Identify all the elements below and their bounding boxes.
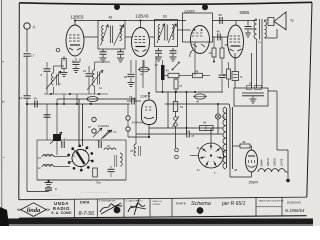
svg-text:Schema: Schema (191, 201, 211, 207)
resistor R56 50B5 cathode box (232, 72, 239, 81)
wire V1 top to bus (74, 21, 76, 26)
output transformer T3 primary coil (254, 19, 257, 39)
band switch S16 arrows (93, 128, 102, 137)
chassis enclosure box (37, 140, 126, 180)
wire V2 top to bus (140, 21, 142, 28)
capacitor C46 at 50B5 plate (247, 21, 249, 26)
tube V4 50B5 envelope (228, 25, 244, 58)
tube V1 12BE6 envelope (66, 25, 84, 56)
svg-text:17: 17 (31, 54, 35, 58)
wire antenna lead down (26, 29, 28, 52)
resistor R52 vertical (227, 69, 231, 79)
svg-text:12AT6: 12AT6 (280, 158, 284, 166)
wire V6 bottom bus (128, 136, 150, 138)
capacitor C7 RF trimmer (44, 68, 51, 70)
wire socket left stub (190, 155, 199, 157)
svg-text:12AT6: 12AT6 (140, 95, 150, 99)
svg-text:Ty: Ty (290, 19, 294, 23)
scan edge faint line left (1, 0, 3, 208)
capacitor C46 coupling (217, 34, 219, 41)
oval capacitor C44b under V2 (143, 60, 145, 67)
svg-text:S. A. COMO: S. A. COMO (51, 211, 72, 215)
svg-text:.... ......... ........ ......: .... ......... ........ .......... ..... (37, 195, 62, 197)
tube socket Z2 seven pin (199, 143, 224, 168)
ground inside filter box (252, 96, 254, 99)
tube V2 12BA6 envelope (132, 28, 150, 57)
antenna terminal A (24, 23, 30, 29)
small caps atop filter box (247, 86, 252, 90)
capacitor C47 tap (186, 131, 188, 138)
svg-text:35m: 35m (96, 181, 101, 185)
heater chain loops (258, 169, 285, 172)
svg-text:48: 48 (195, 70, 199, 74)
capacitor C30 under V1 (75, 58, 77, 61)
wire C47 riser from AVC bus (186, 92, 188, 134)
scanner black band bottom (0, 219, 313, 225)
wire T2 to V3 (178, 29, 191, 31)
ground under T2 right (170, 56, 177, 58)
svg-text:16: 16 (88, 125, 92, 129)
border frame right edge (307, 2, 312, 197)
svg-text:47: 47 (129, 95, 133, 99)
capacitor C58 coupling (219, 17, 221, 24)
svg-text:DATA E VISTO MODIFICHE: DATA E VISTO MODIFICHE (259, 200, 285, 203)
wire coils to gang (54, 156, 68, 158)
socket Z1 pin dots (91, 160, 94, 163)
svg-text:47: 47 (191, 134, 195, 138)
svg-text:45: 45 (225, 43, 229, 47)
capacitor under T1 right to ground (120, 49, 122, 52)
capacitor C4 in box (108, 168, 115, 170)
capacitor under T1 left to ground (102, 49, 104, 52)
tube V3 12AT6 envelope (191, 26, 210, 54)
socket Z1 rotor wedge (77, 152, 85, 165)
trimmer arrow 7m (103, 130, 112, 138)
wire AVC bus (156, 91, 223, 93)
node heater end terminal (286, 179, 290, 183)
wire V6 top lead (148, 93, 150, 100)
svg-text:P.GRAM: P.GRAM (98, 124, 109, 128)
svg-text:12BA6: 12BA6 (266, 158, 270, 167)
resistor R45 load (220, 48, 224, 58)
svg-text:68: 68 (124, 75, 128, 79)
registration punch dot bottom-middle (197, 207, 204, 214)
wire right riser from V6 bus (167, 92, 169, 128)
switch S1 contacts (174, 117, 178, 121)
svg-text:44: 44 (140, 73, 144, 77)
svg-text:41: 41 (97, 139, 101, 143)
resistor R47 vertical below R43 (175, 78, 177, 79)
oscillator padder coil L40 (104, 148, 116, 150)
svg-text:12BE6: 12BE6 (273, 158, 277, 167)
left edge specks (2, 61, 4, 62)
title block top line (19, 197, 307, 200)
phono jack pair left lower (92, 129, 96, 133)
wire top bus (75, 20, 186, 22)
wire bottom bus through R54 (149, 127, 223, 129)
wire V3 plate to 50B5 grid (213, 36, 229, 38)
wire box bottom bus (37, 179, 126, 181)
pin circle V1 (56, 48, 60, 52)
wire T1 to V2 grid (125, 36, 132, 38)
aerial coil L13 lower (42, 165, 54, 167)
capacitor C10 on antenna lead (24, 95, 31, 97)
wire coil bottoms to bus (44, 93, 108, 95)
pilot lamp 75 (215, 114, 220, 119)
svg-text:A: A (33, 25, 36, 30)
ground under C46 (245, 32, 251, 34)
svg-text:N.1956/64: N.1956/64 (285, 208, 305, 213)
svg-text:linda: linda (27, 207, 41, 214)
wire mid vertical from T2 (155, 57, 157, 92)
registration punch dot top-left (114, 4, 120, 10)
resistor R28 in box (93, 168, 98, 177)
svg-text:IL CAPO UFFICIO: IL CAPO UFFICIO (126, 200, 143, 203)
capacitor C43 on AVC spur (27, 103, 130, 105)
svg-text:..... ........... ............: ..... ........... ............ .........… (80, 191, 108, 194)
svg-text:46: 46 (217, 30, 221, 34)
svg-text:42: 42 (155, 63, 159, 67)
svg-text:per R 65/1: per R 65/1 (221, 201, 246, 207)
output transformer T3 secondary coil (265, 22, 267, 38)
border frame top edge (19, 2, 312, 4)
resistor R54 (200, 126, 214, 131)
capacitor C53 below R45 (219, 74, 226, 76)
wire heater chain to terminal (277, 149, 288, 151)
svg-text:35W4: 35W4 (260, 159, 264, 167)
capacitor C17 on antenna lead (24, 53, 31, 55)
phono jack lower (126, 127, 130, 131)
shield box around V3 (183, 13, 213, 42)
svg-text:7m: 7m (113, 130, 117, 134)
coil L33 small choke (134, 144, 136, 156)
resistor R49 rectifier feed (240, 144, 250, 148)
ground under T1 right (117, 57, 124, 59)
wire socket to R54 bus (210, 128, 212, 143)
wire pilot lamp drop (217, 119, 219, 134)
svg-text:45: 45 (196, 100, 200, 104)
wire 35W4 filament return (251, 172, 253, 177)
wire V2 plate to T2 (149, 36, 154, 38)
title block logo diamond linda (21, 203, 47, 217)
wire antenna bottom to ground bus (27, 191, 49, 193)
svg-text:10: 10 (83, 69, 87, 73)
svg-text:4m: 4m (223, 152, 226, 154)
svg-text:11: 11 (99, 86, 102, 90)
svg-text:54: 54 (203, 121, 207, 125)
loudspeaker horn (274, 12, 286, 30)
wire shield box to output stage (213, 20, 257, 22)
wire jack drop (127, 104, 129, 116)
capacitor C41 top of box (61, 141, 63, 148)
svg-text:12BE6: 12BE6 (70, 14, 84, 19)
capacitor C14 on AVC drop (44, 114, 51, 116)
svg-text:8-7-56: 8-7-56 (79, 211, 95, 217)
resistor R43 (168, 73, 179, 78)
ground under C68 (128, 82, 135, 84)
ground under T1 left (100, 57, 107, 59)
svg-text:46: 46 (109, 16, 113, 20)
tube V5 35W4 envelope (246, 150, 258, 172)
wire V1 pins down (63, 58, 65, 61)
signature 1 squiggle (100, 204, 122, 212)
IF transformer T1 can (98, 21, 125, 50)
scanner black blob bottom-left corner (0, 207, 9, 226)
svg-text:16: 16 (209, 51, 213, 55)
wire B+ horizontal to ballast (165, 103, 229, 105)
capacitor under T2 right to ground (172, 48, 174, 51)
registration punch dot top-right (202, 4, 208, 10)
output transformer T3 core (259, 19, 261, 40)
filter network box (234, 88, 268, 106)
electrolytic capacitor C8 to ground (48, 180, 50, 182)
svg-text:PARTE: PARTE (176, 201, 186, 205)
svg-text:36: 36 (234, 168, 238, 172)
node junction antenna to AVC line (26, 103, 28, 105)
svg-text:P.GRAM: P.GRAM (132, 121, 143, 125)
svg-text:52: 52 (223, 73, 227, 77)
signature 2 squiggle (128, 203, 145, 212)
svg-text:IL DISEGNATORE: IL DISEGNATORE (99, 200, 116, 203)
capacitor under T2 left to ground (158, 48, 160, 51)
electrolytic capacitor C55 in box (242, 92, 264, 94)
svg-text:49: 49 (242, 140, 246, 144)
resistor R29 under V1 (62, 59, 67, 69)
volume potentiometer (53, 134, 61, 141)
wire secondary down lead (261, 40, 263, 89)
svg-text:51: 51 (180, 105, 184, 109)
loudspeaker driver (268, 18, 274, 26)
oval capacitor 45 (195, 94, 206, 99)
phono jack pair left upper (92, 117, 96, 121)
svg-text:63: 63 (163, 15, 167, 19)
wire mid verticals V2 (135, 60, 137, 144)
wire 50B5 screen lead (251, 53, 253, 88)
tube V6 envelope (142, 100, 157, 125)
wire 50B5 cathode leads (234, 53, 236, 72)
resistor R51 (173, 102, 178, 112)
capacitor C47b at V6 grid (131, 98, 133, 105)
svg-text:DISEGNO: DISEGNO (287, 201, 302, 205)
wire V3 pin curl (190, 50, 193, 57)
mains plug contacts (175, 148, 179, 152)
wire primary down lead (256, 39, 258, 88)
ballast coil L36 (223, 107, 226, 169)
capacitor C68 under V2 (130, 60, 132, 73)
svg-text:Tr: Tr (258, 41, 261, 45)
svg-text:43: 43 (166, 69, 170, 73)
svg-text:35W4: 35W4 (249, 181, 258, 185)
title block column dividers (74, 199, 76, 218)
ground under C30 (73, 68, 80, 70)
ground under R29 (61, 72, 68, 74)
AVC line with oval filter 44 (57, 98, 136, 100)
svg-text:CONTR.: CONTR. (152, 204, 161, 206)
resistor R16 grid leak (212, 48, 216, 57)
registration punch dot bottom-left on signature (114, 207, 121, 214)
ground under T2 left (155, 56, 162, 58)
svg-text:12BA6: 12BA6 (135, 14, 149, 19)
IF transformer T2 can (155, 20, 178, 47)
wire 50B5 grid drop (235, 21, 237, 26)
vertical coil L12 right of gang (120, 153, 122, 166)
svg-text:OMOLOG.: OMOLOG. (152, 201, 163, 203)
capacitor C41b (98, 141, 100, 148)
wire transformer top leads (256, 19, 258, 21)
svg-text:47: 47 (179, 84, 183, 88)
wire V1 plate to T1 (84, 36, 98, 38)
tube socket Z1 circle (72, 150, 89, 167)
svg-text:DATA: DATA (80, 200, 90, 204)
wire filter box to heater string (268, 90, 277, 92)
resistor R48 (193, 73, 203, 78)
wire speaker return (276, 29, 278, 38)
aerial coil L13 upper (42, 155, 54, 157)
border frame left edge (18, 3, 21, 200)
switch contact S42 (173, 63, 180, 70)
wire R43 R48 link (165, 75, 169, 77)
svg-text:10: 10 (19, 96, 23, 100)
wire mid vertical x143 to lower tube (142, 60, 144, 88)
oscillator coil L9 with trimmer arrow (93, 70, 95, 86)
svg-text:50B5: 50B5 (240, 10, 250, 15)
wire AVC to gang (46, 104, 48, 140)
svg-text:43: 43 (34, 97, 38, 101)
resistor R42 dark (161, 65, 165, 80)
svg-text:55: 55 (249, 82, 253, 86)
wire V6 bottom lead (148, 125, 150, 138)
capacitor C10 osc trimmer (86, 73, 93, 75)
wire V3 output drop (194, 42, 196, 58)
phono jack upper (126, 116, 130, 120)
RF coil L8 with trimmer arrow (52, 73, 54, 85)
svg-text:58: 58 (219, 13, 223, 17)
wire risers to gang (63, 94, 65, 104)
title block bottom line (19, 216, 307, 219)
